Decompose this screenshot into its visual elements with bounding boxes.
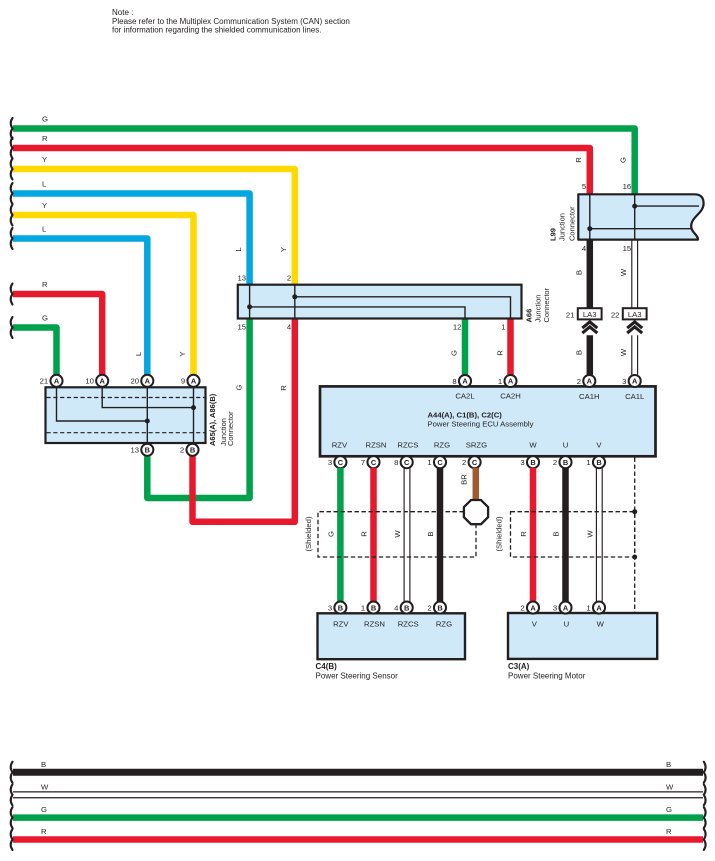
svg-text:RZCS: RZCS	[397, 441, 418, 450]
svg-text:B: B	[41, 760, 46, 769]
svg-text:3: 3	[328, 458, 332, 467]
wire BR SRZG to shield	[473, 468, 480, 501]
svg-text:CA1H: CA1H	[579, 392, 600, 401]
svg-text:A: A	[100, 377, 106, 386]
junction connector L99 box with torn right edge	[578, 194, 703, 239]
A66 internal wire pin2 to pin4	[294, 285, 296, 318]
svg-text:B: B	[437, 603, 442, 612]
A65 internal wire pin9 to pin2	[193, 388, 195, 443]
svg-text:20: 20	[130, 377, 139, 386]
bus wire B	[13, 769, 703, 776]
svg-text:15: 15	[237, 323, 246, 332]
svg-text:Y: Y	[279, 247, 288, 252]
svg-text:1: 1	[498, 377, 502, 386]
svg-text:L: L	[234, 247, 243, 252]
sensor pin 3(B) RZV	[328, 602, 347, 614]
svg-text:RZSN: RZSN	[364, 619, 385, 628]
sensor pin 1(B) RZSN	[361, 602, 380, 614]
ECU pin 1(C) RZG	[427, 456, 446, 468]
shield dashed box around motor wires	[511, 512, 635, 557]
motor pin 3(A) U	[553, 602, 572, 614]
svg-text:13: 13	[130, 446, 139, 455]
svg-text:R: R	[574, 157, 583, 163]
wire R W-phase to motor	[530, 468, 537, 602]
ECU pin 2(B) U	[553, 456, 572, 468]
wire B RZG to sensor	[437, 468, 444, 602]
svg-text:21: 21	[40, 377, 49, 386]
svg-text:2: 2	[520, 603, 524, 612]
svg-text:R: R	[41, 827, 47, 836]
svg-text:B: B	[574, 350, 583, 355]
wire R from A65 pin 2 to A66 pin 4	[193, 319, 295, 522]
A65 pin 20(A)	[130, 375, 153, 387]
svg-text:2: 2	[553, 458, 557, 467]
svg-text:B: B	[666, 760, 671, 769]
bus wire R	[13, 836, 703, 843]
wire L to A65 pin 20	[13, 239, 147, 388]
svg-text:for information regarding the: for information regarding the shielded c…	[112, 25, 321, 34]
break symbol bus G left	[11, 807, 13, 828]
svg-text:W: W	[529, 441, 537, 450]
svg-text:R: R	[519, 531, 528, 537]
svg-text:8: 8	[394, 458, 398, 467]
svg-text:C: C	[371, 458, 377, 467]
motor pin 1(A) W	[586, 602, 605, 614]
svg-text:R: R	[279, 385, 288, 391]
svg-text:G: G	[666, 805, 672, 814]
power steering motor C3(A) box	[508, 613, 657, 659]
wire G RZV to sensor	[337, 468, 344, 602]
svg-text:B: B	[596, 458, 601, 467]
svg-text:U: U	[563, 441, 569, 450]
svg-text:G: G	[42, 314, 48, 323]
svg-text:A: A	[54, 377, 60, 386]
svg-text:L99: L99	[549, 228, 558, 241]
junction dot shield top	[632, 509, 637, 514]
svg-text:Connector: Connector	[226, 411, 235, 446]
power steering sensor C4(B) box	[318, 613, 466, 659]
svg-text:16: 16	[623, 182, 632, 191]
svg-text:CA2H: CA2H	[500, 392, 521, 401]
L99 internal branch from pin16	[635, 205, 699, 207]
wire G (CAN) to L99 pin 16	[13, 129, 635, 195]
svg-text:W: W	[393, 530, 402, 538]
svg-text:R: R	[496, 350, 505, 356]
svg-text:C: C	[437, 458, 443, 467]
svg-text:1: 1	[361, 603, 365, 612]
svg-text:Note :: Note :	[112, 8, 133, 17]
A65 pin 2(B)	[180, 444, 199, 456]
svg-text:12: 12	[453, 323, 462, 332]
svg-text:C: C	[404, 458, 410, 467]
svg-text:3: 3	[328, 603, 332, 612]
ECU pin 3(B) W	[520, 456, 539, 468]
svg-text:A: A	[563, 603, 569, 612]
svg-text:21: 21	[566, 310, 575, 319]
bus wire G	[13, 814, 703, 821]
break symbol bus R left	[11, 829, 13, 850]
ECU pin 2(C) SRZG	[462, 456, 481, 468]
break symbol bus G right	[704, 807, 706, 828]
A66 internal wire pin2 branch to pin1	[295, 297, 511, 318]
svg-text:7: 7	[361, 458, 365, 467]
svg-text:Y: Y	[178, 351, 187, 356]
sensor pin 4(B) RZCS	[394, 602, 413, 614]
svg-text:W: W	[585, 530, 594, 538]
A65 internal wire pin10 to pin2	[102, 388, 193, 408]
svg-text:1: 1	[586, 458, 590, 467]
svg-text:C3(A): C3(A)	[508, 662, 530, 671]
svg-text:C4(B): C4(B)	[316, 662, 338, 671]
A65 pin 9(A)	[181, 375, 200, 387]
svg-text:G: G	[327, 531, 336, 537]
junction connector A66 box	[238, 285, 522, 319]
svg-text:A65(A), A86(B): A65(A), A86(B)	[208, 393, 217, 446]
svg-text:2: 2	[462, 458, 466, 467]
svg-text:(Shielded): (Shielded)	[494, 516, 503, 551]
A66 internal wire pin13 to pin15	[249, 285, 251, 318]
svg-text:Power Steering Sensor: Power Steering Sensor	[316, 671, 399, 680]
ECU pin 1(B) V	[586, 456, 605, 468]
svg-text:G: G	[235, 384, 244, 390]
A66 junction dot pin13 branch	[247, 304, 252, 309]
svg-text:L: L	[134, 351, 143, 356]
break symbol bus W left	[11, 784, 13, 805]
svg-text:R: R	[666, 827, 672, 836]
sensor pin 2(B) RZG	[427, 602, 446, 614]
svg-text:10: 10	[85, 377, 94, 386]
svg-text:W: W	[619, 348, 628, 356]
svg-text:2: 2	[427, 603, 431, 612]
break symbol wire L	[11, 183, 13, 204]
wire G from A66 pin 12 to ECU CA2L	[462, 318, 469, 375]
L99 junction dot pin16 branch	[632, 204, 637, 209]
break symbol wire R2	[11, 284, 13, 305]
wire R (CAN) to L99 pin 5	[13, 148, 590, 194]
ECU A44 assembly box	[320, 386, 656, 456]
wire R from A66 pin 1 to ECU CA2H	[507, 318, 514, 375]
svg-text:A: A	[596, 603, 602, 612]
break symbol wire L2	[11, 228, 13, 249]
break symbol wire G2	[11, 317, 13, 338]
svg-text:G: G	[41, 805, 47, 814]
svg-text:G: G	[619, 157, 628, 163]
svg-text:Power Steering Motor: Power Steering Motor	[508, 671, 586, 680]
ECU pin 8(A) CA2L	[452, 375, 471, 387]
junction connector A65(A) A86(B) box	[46, 387, 206, 443]
svg-text:A44(A), C1(B), C2(C): A44(A), C1(B), C2(C)	[428, 410, 503, 419]
svg-text:3: 3	[520, 458, 524, 467]
L99 internal wire pin5 to pin4	[589, 195, 591, 239]
svg-text:2: 2	[180, 446, 184, 455]
svg-text:A: A	[530, 603, 536, 612]
svg-text:R: R	[360, 531, 369, 537]
shield dashed box around sensor wires	[318, 512, 476, 557]
svg-text:2: 2	[577, 377, 581, 386]
svg-text:CA1L: CA1L	[625, 392, 645, 401]
svg-text:C: C	[472, 458, 478, 467]
svg-text:22: 22	[611, 310, 620, 319]
svg-text:BR: BR	[460, 474, 469, 485]
wire W V-phase to motor	[596, 468, 602, 602]
wire L to A66 pin 13	[13, 194, 250, 286]
svg-text:Junction: Junction	[558, 213, 567, 241]
svg-text:V: V	[532, 619, 538, 628]
svg-text:B: B	[574, 270, 583, 275]
svg-text:Connector: Connector	[567, 206, 576, 241]
svg-text:4: 4	[287, 323, 292, 332]
svg-text:A: A	[587, 377, 593, 386]
wire R to A65 pin 10	[13, 294, 102, 387]
wire B U-phase to motor	[562, 468, 569, 602]
L99 internal wire pin16 to pin15	[634, 195, 636, 239]
svg-text:2: 2	[287, 273, 291, 282]
svg-text:1: 1	[501, 323, 505, 332]
wire B from L99 pin 4 to LA3	[587, 240, 594, 309]
A65 internal wire pin20 to pin13	[146, 388, 148, 443]
svg-text:A: A	[191, 377, 197, 386]
break symbol bus W right	[704, 784, 706, 805]
svg-text:R: R	[42, 280, 48, 289]
svg-text:3: 3	[622, 377, 626, 386]
svg-text:(Shielded): (Shielded)	[304, 516, 313, 551]
junction dot shield bottom	[632, 555, 637, 560]
svg-text:B: B	[338, 603, 343, 612]
svg-text:Power Steering ECU Assembly: Power Steering ECU Assembly	[428, 420, 534, 429]
break symbol bus R right	[704, 829, 706, 850]
shield octagon symbol	[464, 500, 488, 524]
wire Y to A65 pin 9	[13, 215, 194, 387]
L99 junction dot pin5 branch	[587, 226, 592, 231]
ECU pin 1(A) CA2H	[498, 375, 517, 387]
A65 dashed separator lower	[47, 432, 205, 434]
break symbol wire Y	[11, 159, 13, 180]
ECU pin 3(A) CA1L	[622, 375, 641, 387]
svg-text:RZV: RZV	[332, 441, 348, 450]
svg-text:C: C	[338, 458, 344, 467]
svg-text:A: A	[632, 377, 638, 386]
wire R RZSN to sensor	[370, 468, 377, 602]
svg-text:Y: Y	[42, 201, 47, 210]
svg-text:W: W	[597, 619, 605, 628]
svg-text:LA3: LA3	[583, 310, 597, 319]
ECU pin 3(C) RZV	[328, 456, 347, 468]
LA3 21 chevron symbol	[582, 322, 597, 333]
svg-text:RZCS: RZCS	[398, 619, 419, 628]
svg-text:3: 3	[553, 603, 557, 612]
svg-text:RZV: RZV	[333, 619, 349, 628]
svg-text:A: A	[462, 377, 468, 386]
motor pin 2(A) V	[520, 602, 539, 614]
svg-text:9: 9	[181, 377, 185, 386]
ECU pin 2(A) CA1H	[577, 375, 596, 387]
svg-text:RZG: RZG	[436, 619, 452, 628]
wire W from LA3 to ECU CA1L	[632, 335, 638, 375]
svg-text:B: B	[552, 531, 561, 536]
A65 pin 21(A)	[40, 375, 63, 387]
break symbol wire G	[11, 118, 13, 139]
svg-text:B: B	[190, 446, 195, 455]
wire W RZCS to sensor	[404, 468, 410, 602]
A65 pin 10(A)	[85, 375, 108, 387]
svg-text:U: U	[564, 619, 570, 628]
wire B from LA3 to ECU CA1H	[587, 335, 594, 375]
connector LA3 (22) box	[611, 308, 647, 319]
svg-text:15: 15	[623, 244, 632, 253]
wire W from L99 pin 15 to LA3	[632, 240, 638, 309]
svg-text:G: G	[42, 115, 48, 124]
svg-text:B: B	[371, 603, 376, 612]
break symbol bus B right	[704, 762, 706, 783]
svg-text:A66: A66	[525, 309, 534, 323]
svg-text:B: B	[426, 531, 435, 536]
svg-text:SRZG: SRZG	[466, 441, 487, 450]
svg-text:V: V	[596, 441, 602, 450]
svg-text:L: L	[42, 225, 47, 234]
svg-text:A: A	[145, 377, 151, 386]
svg-text:W: W	[666, 782, 674, 791]
svg-text:CA2L: CA2L	[455, 392, 475, 401]
svg-text:B: B	[530, 458, 535, 467]
svg-text:5: 5	[582, 182, 586, 191]
L99 internal branch from pin5	[590, 228, 692, 230]
svg-text:G: G	[450, 350, 459, 356]
note text block	[112, 8, 350, 34]
svg-text:A: A	[508, 377, 514, 386]
svg-text:L: L	[42, 180, 47, 189]
break symbol bus B left	[11, 762, 13, 783]
dashed shield drain wire ECU to motor	[634, 458, 636, 613]
svg-text:8: 8	[452, 377, 456, 386]
svg-text:Y: Y	[42, 155, 47, 164]
ECU pin 8(C) RZCS	[394, 456, 413, 468]
svg-text:B: B	[145, 446, 150, 455]
svg-text:13: 13	[237, 273, 246, 282]
svg-text:4: 4	[394, 603, 399, 612]
A65 internal wire pin21 to pin13	[57, 388, 148, 421]
svg-text:1: 1	[427, 458, 431, 467]
LA3 22 chevron symbol	[627, 322, 642, 333]
A65 pin 13(B)	[130, 444, 153, 456]
svg-text:RZG: RZG	[434, 441, 450, 450]
A65 junction dot pin10 branch	[191, 405, 196, 410]
A66 internal wire pin13 branch to pin12	[250, 307, 465, 318]
svg-text:1: 1	[586, 603, 590, 612]
svg-text:LA3: LA3	[628, 310, 642, 319]
wire G to A65 pin 21	[13, 328, 57, 388]
svg-text:RZSN: RZSN	[366, 441, 387, 450]
svg-text:W: W	[619, 268, 628, 276]
svg-text:W: W	[41, 782, 49, 791]
A65 dashed separator upper	[47, 397, 205, 399]
break symbol wire Y2	[11, 205, 13, 226]
connector LA3 (21) box	[566, 308, 602, 319]
svg-text:R: R	[42, 134, 48, 143]
svg-text:Connector: Connector	[542, 287, 551, 322]
wire G from A65 pin 13 to A66 pin 15	[147, 319, 249, 498]
svg-text:B: B	[563, 458, 568, 467]
svg-text:4: 4	[582, 244, 587, 253]
wire Y to A66 pin 2	[13, 169, 295, 285]
bus wire W	[13, 792, 703, 798]
ECU pin 7(C) RZSN	[361, 456, 380, 468]
break symbol wire R	[11, 138, 13, 159]
A65 junction dot pin21 branch	[145, 419, 150, 424]
svg-text:B: B	[404, 603, 409, 612]
A66 junction dot pin2 branch	[292, 294, 297, 299]
